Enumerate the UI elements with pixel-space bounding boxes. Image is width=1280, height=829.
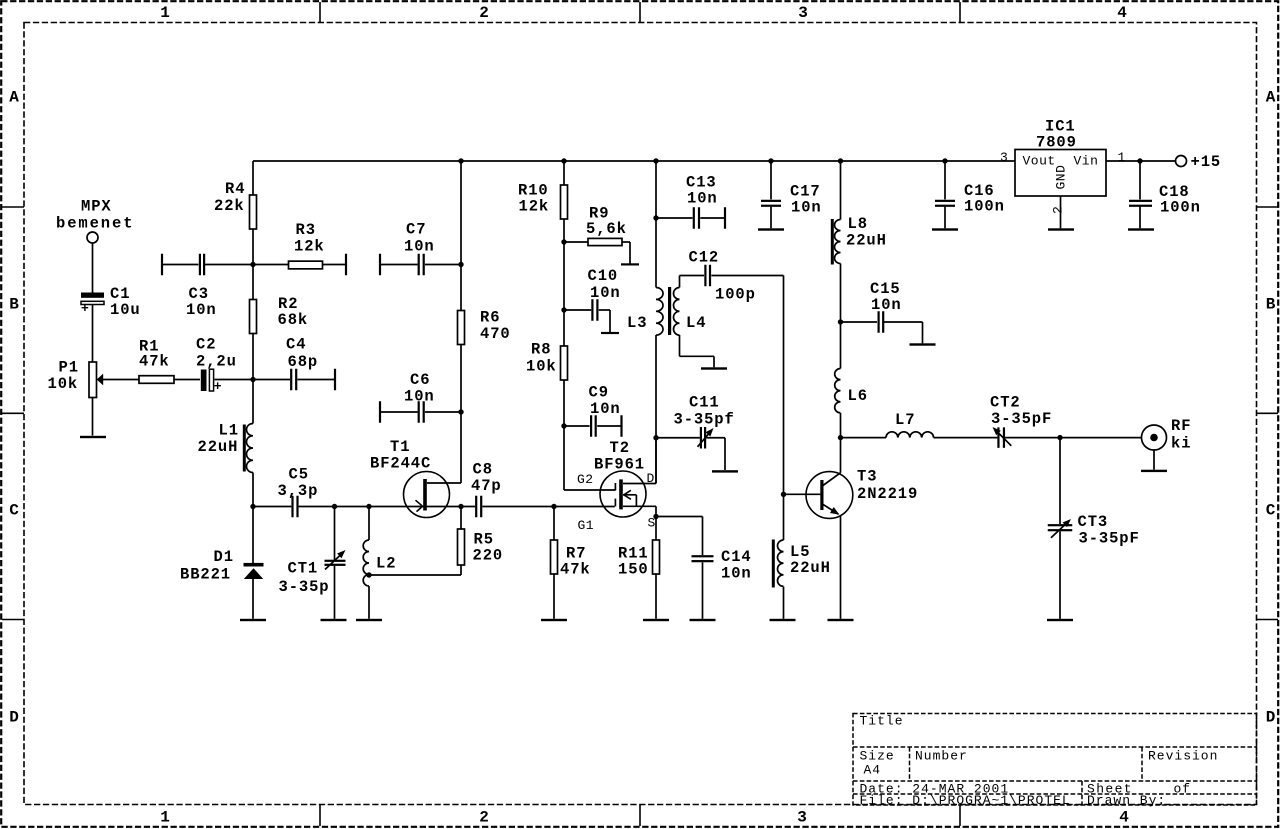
svg-text:GND: GND: [1054, 165, 1069, 190]
svg-text:47p: 47p: [471, 477, 502, 495]
svg-text:150: 150: [618, 561, 649, 579]
svg-text:L2: L2: [376, 555, 396, 573]
svg-text:A: A: [9, 88, 19, 106]
svg-text:BB221: BB221: [180, 566, 231, 584]
svg-text:2N2219: 2N2219: [857, 485, 918, 503]
svg-text:Title: Title: [860, 714, 904, 729]
svg-text:220: 220: [473, 547, 504, 565]
svg-text:S: S: [648, 516, 656, 531]
svg-text:2: 2: [479, 4, 489, 22]
svg-text:10k: 10k: [526, 358, 557, 376]
svg-text:12k: 12k: [294, 238, 325, 256]
svg-text:100n: 100n: [964, 198, 1005, 216]
svg-text:3,3p: 3,3p: [278, 482, 319, 500]
svg-text:5,6k: 5,6k: [586, 220, 627, 238]
svg-text:T2: T2: [610, 439, 630, 457]
svg-text:Revision: Revision: [1148, 749, 1218, 764]
svg-text:P1: P1: [59, 359, 79, 377]
svg-text:L4: L4: [686, 314, 706, 332]
svg-text:22uH: 22uH: [198, 438, 239, 456]
svg-text:C9: C9: [589, 384, 609, 402]
svg-text:+15: +15: [1191, 153, 1222, 171]
svg-text:R8: R8: [531, 341, 551, 359]
svg-text:T1: T1: [390, 438, 410, 456]
svg-text:10n: 10n: [721, 565, 752, 583]
svg-text:100n: 100n: [1160, 199, 1201, 217]
svg-text:Vout: Vout: [1023, 154, 1056, 169]
svg-text:L3: L3: [627, 314, 647, 332]
svg-text:2: 2: [479, 808, 489, 826]
svg-text:C8: C8: [473, 461, 493, 479]
svg-text:D: D: [9, 708, 19, 726]
svg-text:C7: C7: [406, 221, 426, 239]
svg-text:D1: D1: [214, 548, 234, 566]
svg-text:C: C: [9, 501, 19, 519]
svg-text:RF: RF: [1171, 417, 1191, 435]
svg-text:22k: 22k: [214, 197, 245, 215]
svg-text:10n: 10n: [687, 190, 718, 208]
svg-text:CT1: CT1: [288, 560, 319, 578]
svg-text:Number: Number: [915, 749, 968, 764]
svg-text:C12: C12: [689, 249, 720, 267]
svg-text:C5: C5: [289, 466, 309, 484]
svg-text:D: D: [647, 471, 655, 486]
svg-text:C14: C14: [721, 548, 752, 566]
svg-text:BF244C: BF244C: [370, 455, 431, 473]
svg-text:L1: L1: [219, 422, 239, 440]
svg-text:C2: C2: [196, 336, 216, 354]
svg-text:68p: 68p: [288, 353, 319, 371]
svg-text:47k: 47k: [560, 561, 591, 579]
svg-text:68k: 68k: [278, 311, 309, 329]
svg-text:22uH: 22uH: [790, 559, 831, 577]
svg-text:R4: R4: [225, 180, 245, 198]
svg-text:1: 1: [160, 4, 170, 22]
svg-text:10n: 10n: [186, 301, 217, 319]
svg-text:A: A: [1266, 88, 1276, 106]
svg-text:10n: 10n: [871, 296, 902, 314]
svg-text:10u: 10u: [110, 301, 141, 319]
svg-text:B: B: [9, 295, 19, 313]
svg-text:10n: 10n: [590, 400, 621, 418]
svg-text:+: +: [214, 379, 222, 394]
svg-text:ki: ki: [1171, 435, 1191, 453]
svg-text:10n: 10n: [590, 284, 621, 302]
svg-text:Vin: Vin: [1074, 154, 1099, 169]
svg-text:3: 3: [798, 4, 808, 22]
svg-text:3-35pF: 3-35pF: [991, 410, 1052, 428]
svg-text:3-35p: 3-35p: [279, 578, 330, 596]
svg-text:G2: G2: [577, 472, 594, 487]
svg-text:C10: C10: [588, 267, 619, 285]
svg-text:4: 4: [1117, 4, 1127, 22]
svg-text:D: D: [1266, 708, 1276, 726]
svg-text:C4: C4: [286, 336, 306, 354]
svg-text:T3: T3: [857, 468, 877, 486]
svg-text:10n: 10n: [404, 238, 435, 256]
svg-text:A4: A4: [864, 763, 882, 778]
svg-text:BF961: BF961: [594, 456, 645, 474]
svg-text:L6: L6: [848, 387, 868, 405]
svg-text:22uH: 22uH: [846, 232, 887, 250]
svg-text:C6: C6: [410, 371, 430, 389]
svg-text:10n: 10n: [404, 388, 435, 406]
svg-text:G1: G1: [578, 518, 595, 533]
svg-text:bemenet: bemenet: [56, 214, 134, 232]
svg-text:470: 470: [480, 325, 511, 343]
svg-text:10n: 10n: [791, 199, 822, 217]
svg-text:CT2: CT2: [990, 394, 1021, 412]
svg-text:CT3: CT3: [1078, 513, 1109, 531]
svg-text:C: C: [1266, 501, 1276, 519]
svg-text:12k: 12k: [519, 198, 550, 216]
svg-text:3-35pf: 3-35pf: [674, 410, 735, 428]
svg-text:Drawn By:: Drawn By:: [1087, 793, 1166, 808]
svg-text:3: 3: [797, 808, 807, 826]
svg-text:R3: R3: [296, 221, 316, 239]
svg-text:47k: 47k: [139, 353, 170, 371]
svg-text:L8: L8: [848, 215, 868, 233]
svg-text:R6: R6: [480, 309, 500, 327]
svg-text:MPX: MPX: [81, 197, 112, 215]
svg-text:Size: Size: [860, 749, 895, 764]
svg-text:3-35pF: 3-35pF: [1079, 530, 1140, 548]
svg-text:File: D:\PROGRA~1\PROTEL: File: D:\PROGRA~1\PROTEL: [860, 793, 1071, 808]
svg-text:2: 2: [1050, 206, 1065, 214]
svg-text:4: 4: [1119, 808, 1129, 826]
svg-text:3: 3: [1000, 150, 1008, 165]
svg-text:7809: 7809: [1036, 134, 1077, 152]
svg-text:+: +: [81, 301, 89, 316]
svg-text:100p: 100p: [715, 286, 756, 304]
svg-text:C11: C11: [689, 394, 720, 412]
svg-text:B: B: [1266, 295, 1276, 313]
svg-text:L7: L7: [895, 411, 915, 429]
svg-text:1: 1: [1118, 150, 1126, 165]
svg-text:10k: 10k: [48, 375, 79, 393]
svg-text:2,2u: 2,2u: [196, 353, 237, 371]
svg-text:of: of: [1174, 781, 1192, 796]
svg-text:1: 1: [160, 808, 170, 826]
